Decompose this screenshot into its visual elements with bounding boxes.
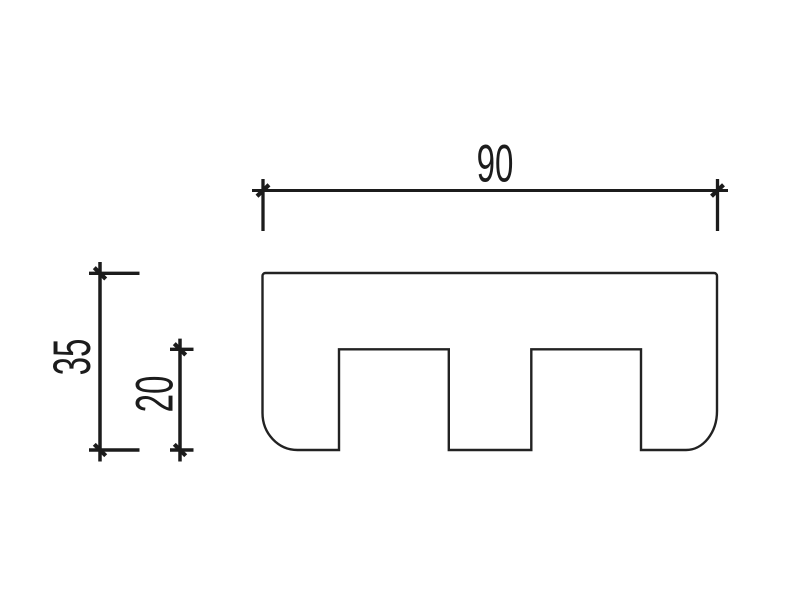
tick top [174, 344, 185, 355]
dimension 35 (left vertical) [89, 262, 140, 462]
extension line left [261, 179, 264, 231]
extension line top [89, 272, 140, 275]
tick top [94, 268, 105, 279]
extension line top [170, 348, 194, 351]
svg-text:90: 90 [477, 135, 514, 194]
dimension line [252, 189, 728, 192]
dimension line [98, 262, 102, 462]
svg-text:35: 35 [43, 339, 102, 376]
profile outline (comb-shaped cross-section with two bottom notches) [263, 273, 718, 450]
dimension 20 (inner vertical) [170, 339, 194, 462]
tick bottom [174, 444, 185, 455]
extension line right [716, 179, 719, 231]
tick left [257, 185, 269, 196]
svg-text:20: 20 [126, 376, 185, 413]
dimension line [178, 339, 182, 462]
tick bottom [94, 444, 105, 455]
extension line bottom [89, 448, 140, 451]
extension line bottom [170, 448, 194, 451]
dimension 90 (top horizontal) [252, 179, 728, 231]
tick right [712, 185, 724, 196]
